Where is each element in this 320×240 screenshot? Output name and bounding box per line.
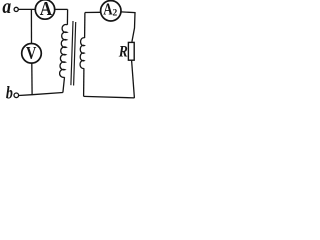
svg-text:b: b xyxy=(6,84,13,103)
transformer core xyxy=(71,21,73,85)
svg-text:R: R xyxy=(118,44,128,61)
svg-text:2: 2 xyxy=(113,8,118,18)
resistor R xyxy=(128,42,134,60)
svg-text:V: V xyxy=(26,45,37,64)
wire A1 to primary xyxy=(55,8,68,10)
transformer secondary winding xyxy=(80,38,85,69)
wire secondary to bottom xyxy=(83,68,85,96)
wire junction to voltmeter (vertical) xyxy=(30,9,32,43)
wire voltmeter to bottom xyxy=(31,63,33,95)
ammeter A2 xyxy=(101,1,121,21)
bottom wire of right loop xyxy=(84,96,135,98)
terminal b xyxy=(14,93,19,98)
wire resistor to bottom xyxy=(132,61,135,98)
wire a to ammeter A1 xyxy=(18,8,35,10)
terminal a xyxy=(14,7,18,11)
wire down to primary coil xyxy=(66,9,68,24)
wire primary to bottom xyxy=(63,77,65,92)
voltmeter V xyxy=(22,44,42,64)
svg-text:A: A xyxy=(103,1,112,19)
wire secondary to ammeter A2 (top) xyxy=(85,11,101,13)
svg-text:a: a xyxy=(2,0,11,18)
transformer primary winding xyxy=(60,24,68,77)
svg-text:A: A xyxy=(40,0,53,20)
ammeter A1 xyxy=(35,0,54,19)
wire A2 to resistor xyxy=(121,12,135,42)
bottom wire of left loop xyxy=(19,93,63,96)
wire down to secondary coil xyxy=(84,13,86,39)
